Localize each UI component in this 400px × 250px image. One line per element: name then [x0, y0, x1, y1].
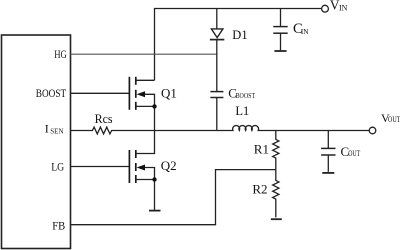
svg-text:BOOST: BOOST [236, 92, 256, 100]
svg-text:FB: FB [52, 218, 65, 232]
svg-text:LG: LG [51, 160, 64, 174]
svg-text:R1: R1 [254, 141, 269, 156]
svg-text:OUT: OUT [388, 115, 400, 124]
svg-text:SEN: SEN [50, 128, 63, 136]
svg-text:IN: IN [339, 4, 348, 13]
svg-text:HG: HG [54, 47, 67, 61]
svg-text:Q2: Q2 [161, 158, 177, 173]
svg-text:I: I [45, 121, 49, 135]
svg-text:BOOST: BOOST [36, 86, 67, 100]
svg-text:R2: R2 [252, 181, 267, 196]
svg-text:Q1: Q1 [161, 85, 177, 100]
svg-text:L1: L1 [235, 104, 249, 118]
svg-text:OUT: OUT [348, 149, 360, 158]
svg-text:D1: D1 [232, 28, 247, 42]
svg-text:Rcs: Rcs [95, 111, 113, 126]
svg-text:IN: IN [301, 27, 309, 36]
